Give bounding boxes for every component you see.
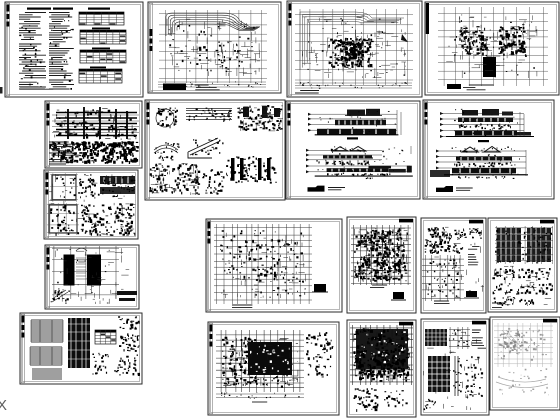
S19 faint curved section <box>496 368 549 395</box>
S9 bottom-middle fixtures <box>56 204 136 236</box>
sheet S18: stair/column details <box>421 319 489 415</box>
S6 arch detail left <box>154 142 180 161</box>
S14 lower grid plan <box>422 255 464 301</box>
S7 elevation 1 window band <box>335 120 386 125</box>
S6 detail bubble circle <box>156 108 178 129</box>
S3 title text <box>295 91 319 94</box>
S11 small table right of strip <box>95 330 116 344</box>
S16 slab grid <box>216 330 304 392</box>
S10 door swing arc <box>76 248 87 251</box>
S1 spec table 3 <box>80 48 126 64</box>
S1 footer text <box>20 87 53 89</box>
S18 big checkered block <box>428 356 450 392</box>
S12 framing clutter <box>220 230 306 298</box>
S19 faint plan grid <box>494 323 553 367</box>
S2 legend blob bottom-left <box>163 84 220 91</box>
S5 floor slab lines <box>52 113 139 136</box>
S9 middle column details <box>78 174 96 198</box>
S7 elevation 2 right low wing <box>389 166 412 173</box>
S5 section clutter <box>53 109 137 140</box>
S1 spec table 1 <box>79 8 124 26</box>
S9 extra linework <box>49 174 136 234</box>
sheet S17: roof framing plan <box>347 320 416 417</box>
sheet S19: foundation plan (faint copy) <box>490 317 560 410</box>
S16 bottom dimension lines <box>216 392 304 399</box>
S4 twin dark clusters <box>459 26 526 56</box>
S14 top-middle detail <box>454 229 467 240</box>
S9 bottom-right details <box>114 203 134 235</box>
S7 elevation 2 gables <box>331 146 366 152</box>
S14 stamp blob <box>464 291 479 298</box>
S11 right-top details <box>118 316 140 329</box>
S12 framing grid <box>214 224 312 304</box>
S9 elevation band top-right <box>98 175 135 197</box>
S8 elevation 2 guide lines <box>436 151 526 175</box>
sheet S5: wall sections + notes <box>45 101 142 168</box>
S8 elevation 1 title <box>478 140 489 142</box>
S8 elevation 2 level marks <box>436 150 439 177</box>
S3 stepped eave lines <box>300 12 404 70</box>
S8 elevation 2 window band <box>456 157 512 161</box>
S17 extra linework <box>354 328 410 382</box>
S13 dense framing clutter <box>354 228 408 281</box>
S11 striped schedule table 2 <box>30 347 62 365</box>
S3 north arrow <box>401 34 408 42</box>
S8 elevation 1 base band <box>446 131 534 137</box>
S2 plan linework <box>167 19 260 76</box>
S10 left black core <box>64 255 75 286</box>
S8 elevation 2 base dashes <box>458 176 514 179</box>
S18 middle vertical detail <box>453 356 462 396</box>
S11 right-bottom details <box>114 354 140 376</box>
sheet S15: column schedule details <box>488 218 557 312</box>
S3 plan linework <box>302 16 406 78</box>
sheet S9: interior detail plans <box>44 170 138 239</box>
S14 mid small detail <box>453 244 463 254</box>
S8 elevation 2 roof outline <box>460 147 500 153</box>
S17 dense framing grid <box>350 325 413 385</box>
S12 stamp blob <box>312 284 328 292</box>
S4 plan linework <box>446 15 537 79</box>
S18 top-left dark grid block <box>425 329 447 346</box>
S1 spec table 2 <box>80 28 126 45</box>
S12 title text <box>232 305 252 307</box>
S4 plan grid <box>438 7 548 86</box>
sheet S14: beam reinforcement details <box>421 218 486 313</box>
sheet S10: stair core plan <box>45 245 139 309</box>
S9 room plan top-left <box>50 173 78 202</box>
S15 column detail row 3 <box>494 297 534 306</box>
S4 left title bar <box>426 3 429 34</box>
S7 elevation 1 level marks <box>308 113 311 132</box>
S15 twin dense blocks top <box>495 226 553 264</box>
S10 stair treads <box>76 258 86 279</box>
S11 striped schedule table 3 <box>32 369 62 379</box>
S16 left dark patches <box>222 337 258 386</box>
svg-text:X: X <box>0 397 7 414</box>
S7 elevation 2 upper window band <box>323 155 372 158</box>
S4 central stair core <box>483 57 496 77</box>
S16 title text <box>252 401 267 403</box>
S7 elevation 2 mid band <box>326 160 369 166</box>
S16 right-side details <box>306 332 333 377</box>
S6 lintel details top <box>186 108 232 122</box>
sheet S4: upper floor plan <box>425 2 559 95</box>
sheet S11: schedules + door/window details <box>20 313 142 384</box>
sheet S8: side elevations <box>423 100 554 199</box>
S7 elevation 2 small marks below <box>366 177 373 179</box>
S3 dimension rows <box>295 82 412 89</box>
S8 elevation 1 level marks <box>440 112 443 138</box>
S8 elevation 2 base band <box>430 168 528 177</box>
S18 bottom-left bits <box>424 399 437 410</box>
S10 right black core <box>87 255 101 286</box>
S8 elevation 1 guide lines <box>440 114 524 137</box>
S16 extra linework <box>223 338 298 386</box>
S15 extra linework <box>494 266 553 306</box>
S16 lower clutter <box>222 374 290 388</box>
S7 elevation 2 level marks <box>306 149 309 174</box>
S16 big black slab mass <box>248 342 292 375</box>
stray sheet edge mark at far left <box>0 87 3 94</box>
S10 dimension clutter <box>55 248 129 304</box>
S14 top-left rebar cluster <box>425 227 452 254</box>
S8 title blob <box>436 186 473 192</box>
S15 bottom-left note <box>492 303 504 307</box>
S7 elevation texture specks <box>316 110 411 177</box>
S1 notes column 2 <box>49 8 74 90</box>
S6 bottom-middle detail <box>202 169 224 194</box>
S11 striped schedule table 1 <box>31 320 63 342</box>
sheet S7: front/back elevations <box>286 101 420 199</box>
S17 heavy dark clutter <box>353 328 410 382</box>
S11 right-middle window details <box>119 333 140 352</box>
S8 elevation 2 mid texture <box>454 162 512 168</box>
S8 elevation texture specks <box>452 109 526 176</box>
S15 column detail row 1 <box>492 268 550 280</box>
S18 top-middle grid detail <box>449 327 470 349</box>
S6 top right details <box>237 105 283 131</box>
S7 elevation 2 long window band <box>327 166 391 172</box>
sheet S6: construction details <box>145 100 285 200</box>
S6 rebar column details bottom <box>226 156 277 184</box>
S17 scattered details below <box>354 388 408 412</box>
S8 elevation 1 mid texture <box>459 124 511 130</box>
S9 bottom-left room plan <box>47 203 79 235</box>
S19 faint plan clutter <box>498 328 547 361</box>
S13 stamp blob <box>391 292 406 300</box>
S6 sloped roof detail <box>188 138 224 158</box>
S12 darker center patches <box>238 240 292 281</box>
S7 elevation 1 base band <box>315 129 399 135</box>
sheet S3: ground floor plan <box>287 1 422 97</box>
sheet S2: roof plan <box>148 2 281 93</box>
S17 heavy dark mass <box>356 329 408 369</box>
S10 bottom-left step detail <box>51 290 70 304</box>
S15 column detail row 2 <box>493 283 553 295</box>
S7 elevation 2 guide lines <box>306 150 382 160</box>
S8 elevation 1 roof blobs <box>462 109 513 116</box>
S4 title blob <box>447 84 494 90</box>
S14 mid text bits <box>468 247 480 265</box>
S5 notes band <box>49 141 139 164</box>
S14 extra linework <box>426 227 484 298</box>
S13 title text <box>370 285 387 287</box>
S1 spec table 4 <box>79 67 122 84</box>
S7 title blob <box>308 186 346 192</box>
sheet S16: slab reinforcement plan <box>208 322 339 415</box>
S5 section columns <box>68 107 127 139</box>
sheet S13: floor framing plan <box>347 217 416 313</box>
S6 bottom-left dense detail <box>149 163 200 195</box>
S7 elevation 1 roof blobs <box>345 109 382 116</box>
S7 elevation 2 base dashes + ground <box>315 173 413 176</box>
sheet S1: general notes + spec tables <box>5 2 143 97</box>
S3 landscaping dark cluster <box>328 38 373 68</box>
S2 plan grid <box>159 10 267 83</box>
S2 stepped roof outline curves <box>166 13 260 36</box>
S14 bottom text <box>434 301 450 303</box>
S11 mid-bottom details <box>92 353 108 375</box>
S7 elevation 1 guide lines <box>308 114 397 130</box>
S3 plan grid <box>295 9 413 85</box>
S18 right column details <box>465 356 483 398</box>
S2 dimension rows <box>158 81 266 88</box>
S2 central roof texture <box>196 45 241 69</box>
S1 notes column 1 <box>19 8 51 90</box>
S7 elevation 1 title <box>347 137 358 139</box>
S13 framing grid <box>351 225 411 285</box>
sheet S12: beam framing plan <box>206 219 342 312</box>
S14 top-right detail <box>469 228 481 239</box>
S10 surrounding walls grid <box>52 246 119 299</box>
S11 tall dark door schedule strip <box>68 318 90 368</box>
S18 top-right text bits <box>472 330 486 348</box>
S13 extra linework <box>355 228 409 282</box>
S10 right horizontal bars <box>117 291 137 301</box>
S8 elevation 1 window band upper <box>458 118 513 123</box>
S18 extra linework <box>424 331 479 410</box>
